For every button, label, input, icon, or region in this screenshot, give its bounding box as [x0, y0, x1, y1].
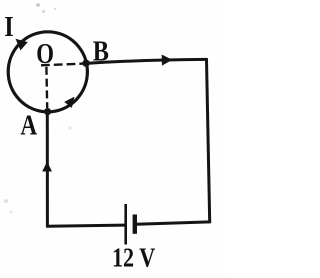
- svg-text:12 V: 12 V: [112, 244, 155, 274]
- svg-text:I: I: [4, 10, 13, 42]
- dashed radius O-B: [41, 64, 83, 66]
- svg-text:B: B: [93, 34, 109, 66]
- arrow on left wire (current up): [42, 162, 52, 172]
- wire bottom left (battery to bottom-left corner): [47, 225, 123, 226]
- battery B1 long plate (+): [124, 204, 127, 245]
- scan noise specks: [4, 3, 72, 213]
- arrow on loop, bottom-right arc (A to B): [64, 94, 78, 108]
- arrow on loop, top-left (current direction I): [12, 35, 28, 51]
- wire top (B to top-right corner): [86, 59, 207, 63]
- svg-text:O: O: [36, 38, 54, 70]
- circular loop conductor: [8, 32, 87, 112]
- svg-text:A: A: [20, 109, 37, 141]
- arrow on top wire: [162, 54, 173, 65]
- battery B1 short plate (-): [133, 215, 137, 234]
- wire bottom right (corner to battery): [137, 222, 210, 224]
- node A junction dot: [44, 108, 51, 115]
- node B junction dot: [82, 60, 89, 67]
- dashed radius O-A: [45, 67, 48, 108]
- wire right side: [207, 59, 210, 222]
- wire left side (bottom-left corner up to node A): [46, 112, 49, 227]
